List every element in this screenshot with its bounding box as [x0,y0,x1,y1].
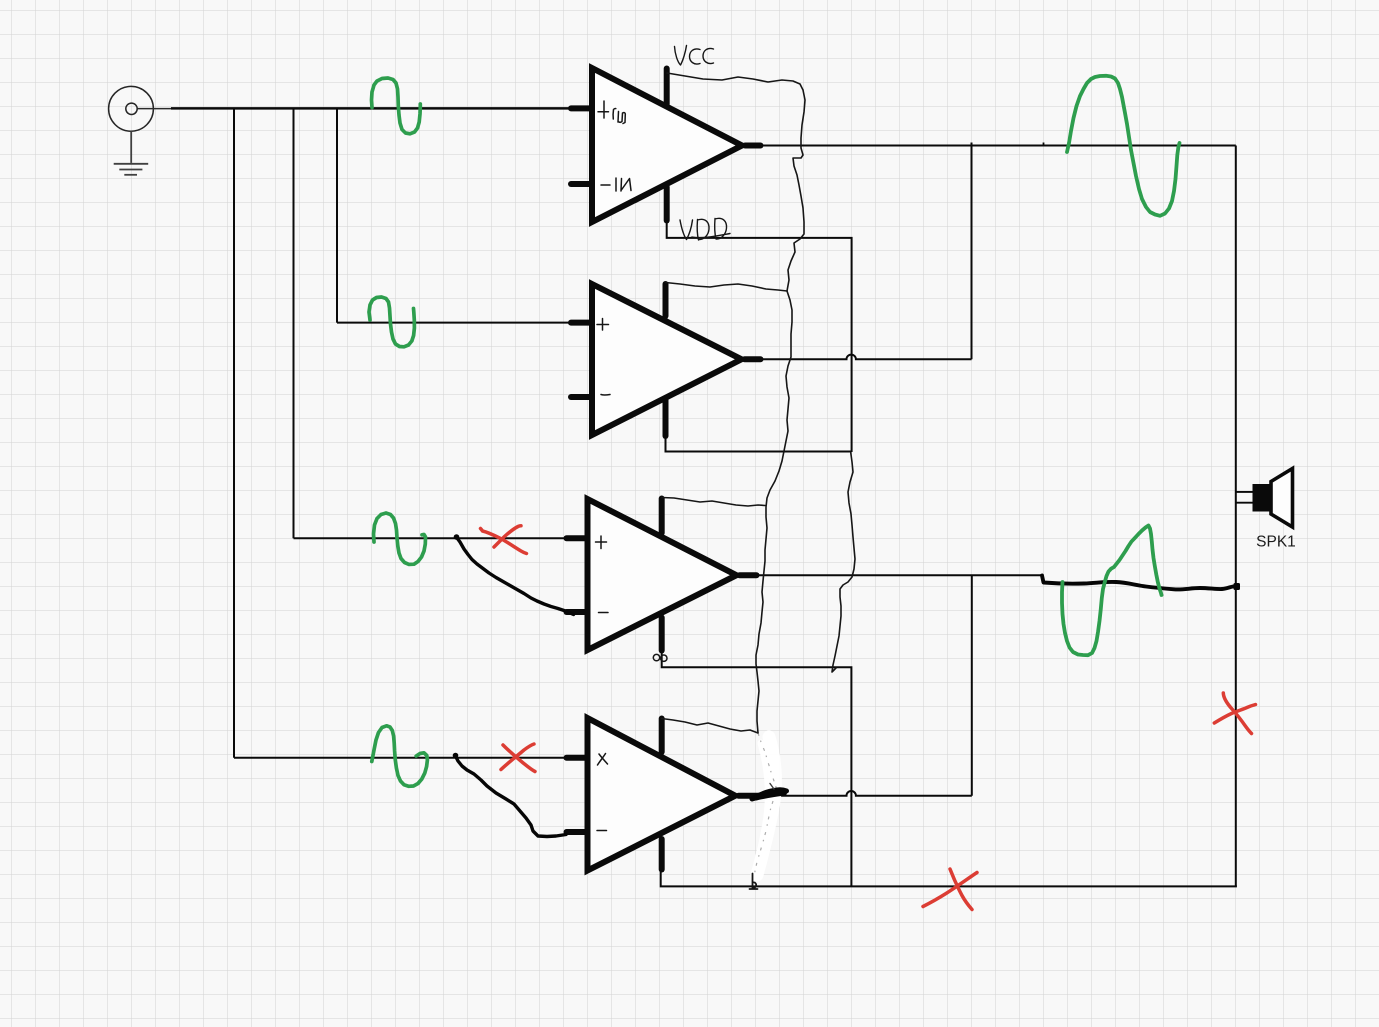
wire: hand-drawn VCC net from U1 VCC pin down left side of bus [667,73,805,733]
op-amp U2 [571,284,761,436]
wire: U1 VDD down and right to VDD bus [667,220,852,452]
wire: SPK1 pin 2 [1236,502,1253,504]
connector J1 (input jack) [109,86,154,131]
wire: erased faint VCC net segment (upper) [758,733,777,790]
U2 VCC pin [663,284,669,316]
label U4 + (scribbled) [598,754,608,766]
U2 +IN pin [571,320,590,326]
annotation: red X over U3 input wire [481,526,527,554]
wire: hand-drawn U3 VCC pin to VCC net [662,498,765,507]
op-amp U4 [567,718,761,871]
U2 -IN pin [571,394,590,400]
svg-text:SPK1: SPK1 [1256,534,1296,551]
speaker SPK1 [1253,469,1293,528]
wire: hand-drawn U2 VCC pin to VCC net [666,283,788,292]
wire: U4 output with hop over VDD bus [760,791,972,796]
U4 VCC pin [659,719,665,753]
annotation: green input waveform 1 [372,78,421,134]
U1 VDD pin [664,187,670,221]
label U2 - [601,394,610,397]
wire: U3 VDD to bus, down to bottom rail [662,650,852,886]
wire: input net J1 to U1 +IN [137,108,171,110]
U2 VDD pin [663,400,669,436]
label VDD (handwritten) [680,218,730,240]
annotation: scribble over U4 output [752,790,787,799]
annotation: red X over bottom rail [923,869,977,910]
wire: input branch vertical to U4 [233,108,235,757]
label U2 + [597,319,609,331]
op-amp U1 [571,68,761,222]
wire: U3 output horizontal [751,574,1042,576]
U3 VDD pin [659,618,665,651]
U1 +IN pin [571,105,590,111]
U2 triangle body [592,284,742,435]
wire: hand-drawn reroute U4 +IN wire to -IN pin [453,753,459,759]
annotation: green input waveform 4 [372,726,428,787]
wire: U1 output to right bus [757,145,1236,147]
U3 +IN pin [567,535,586,541]
U1 VCC pin [664,69,670,105]
mark b at end of erased VCC net [750,874,758,890]
wire: vertical join U3/U4 outputs [971,575,973,796]
wire: hand-drawn U4 VCC pin to VCC net [662,719,758,734]
wire: U2 +IN horizontal [337,322,570,324]
J1 outer ring [109,86,154,131]
SPK1 cone [1271,469,1293,528]
U4 +IN pin [567,755,586,761]
wire: input branch vertical to U3 [293,108,295,538]
U1 -IN pin [571,181,590,187]
U4 -IN pin [567,829,586,835]
annotation: green input waveform 3 [374,513,426,564]
wire: U2 output with hop over VDD bus [758,355,972,360]
label VCC (handwritten) [675,46,714,66]
annotation: green output sine wave (top) [1067,76,1180,216]
wire: hand-drawn reroute U3 +IN wire to -IN pin [454,534,460,540]
label U3 - [599,612,609,614]
label U3 + [596,536,607,549]
label U1 -IN (handwritten) [601,178,631,191]
J1 center pin [126,103,137,114]
wire: hand-drawn VDD bus link (U2 VDD corner down to U3 VDD rail) [832,453,855,672]
U3 VCC pin [659,499,665,534]
annotation: red X over U4 input wire [501,744,535,772]
wire: right vertical bus to SPK1 [1235,146,1237,887]
SPK1 magnet body [1253,484,1272,512]
label U1 +IN (handwritten) [598,101,625,124]
U2 output pin [745,356,761,362]
wire: U4 VDD and bottom rail to right bus [661,869,1237,886]
annotation: green input waveform 2 [369,297,414,347]
ground [114,131,149,175]
eraser smudge over VCC net lower part [757,737,775,875]
wire: input branch vertical to U2 [336,108,338,322]
U4 output pin [739,793,761,799]
op-amp U3 [567,499,757,651]
wire: SPK1 pin 1 [1236,491,1253,493]
junction tick on U1 output wire [1043,143,1045,147]
wire: hand-drawn thick link U3 output to right bus [1042,576,1233,590]
junction dot on right bus [1234,583,1241,590]
label U4 - [597,830,607,832]
U1 output pin [745,143,761,149]
U4 VDD pin [659,839,665,870]
annotation: red X over right bus [1214,693,1255,734]
U1 triangle body [592,68,742,222]
wire: U4 +IN horizontal [234,757,566,759]
annotation: green output sine wave (bottom) [1062,526,1162,656]
U3 output pin [740,572,757,578]
U3 -IN pin [567,609,586,615]
wire: U3 +IN horizontal [294,537,567,539]
wire: erased faint VCC net segment (lower) [754,801,773,878]
U3 triangle body [588,499,737,650]
wire: vertical join U1/U2 outputs [971,143,973,360]
wire: U2 VDD to bus [666,435,852,452]
U4 triangle body [588,718,736,871]
marks oo at U3 VDD pin [653,654,659,660]
